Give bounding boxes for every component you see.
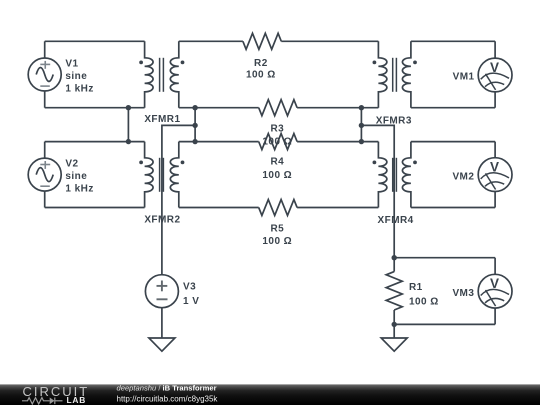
junction V1- / V2+ bottom bbox=[126, 139, 131, 144]
svg-text:V: V bbox=[490, 159, 499, 174]
svg-text:http://circuitlab.com/c8yg35k: http://circuitlab.com/c8yg35k bbox=[117, 395, 219, 404]
voltmeter VM3 bbox=[478, 258, 512, 325]
junction XFMR3 primary bottom / R3 right bbox=[359, 105, 364, 110]
wire left bus V1- to V2+ bbox=[127, 108, 129, 142]
svg-text:sine: sine bbox=[65, 71, 87, 82]
voltage source V1 (sine) bbox=[28, 41, 61, 107]
resistor R4 bbox=[259, 134, 297, 150]
resistor R5 bbox=[259, 200, 297, 216]
wire XFMR2 secondary bottom to XFMR4 primary bottom (R5 leads) bbox=[179, 207, 379, 209]
wire tap to R1 bbox=[361, 125, 394, 257]
label V2 sine 1 kHz bbox=[65, 159, 93, 195]
junction right bus tap to R1 bbox=[359, 123, 364, 128]
wire XFMR4 secondary bottom to VM2 bbox=[411, 207, 495, 209]
label R4 100 ohm bbox=[262, 157, 292, 181]
voltmeter VM1 bbox=[478, 41, 512, 107]
svg-text:V1: V1 bbox=[65, 59, 78, 70]
svg-text:100 Ω: 100 Ω bbox=[262, 170, 292, 181]
junction R1 top / VM3 bbox=[392, 255, 397, 260]
svg-text:R1: R1 bbox=[409, 282, 423, 293]
label V1 sine 1 kHz bbox=[65, 59, 93, 95]
label R5 100 ohm bbox=[262, 223, 292, 247]
voltmeter VM2 bbox=[478, 142, 512, 208]
svg-text:R2: R2 bbox=[254, 58, 268, 69]
wire top of V2 loop bbox=[45, 141, 145, 143]
wire R1 bottom to ground bbox=[393, 324, 395, 338]
wire bottom of V1 loop bbox=[45, 107, 145, 109]
transformer XFMR1 bbox=[139, 41, 184, 107]
wire XFMR2 secondary top to XFMR4 primary top (R4 leads) bbox=[179, 141, 379, 143]
svg-text:LAB: LAB bbox=[67, 395, 87, 405]
svg-text:1 kHz: 1 kHz bbox=[65, 84, 93, 95]
wire tap to V3 bbox=[162, 125, 195, 274]
svg-text:XFMR1: XFMR1 bbox=[144, 114, 180, 125]
junction V1- / V2+ top bbox=[126, 105, 131, 110]
wire XFMR4 secondary top to VM2 bbox=[411, 141, 495, 143]
resistor R1 bbox=[386, 258, 402, 325]
label R2 100 ohm bbox=[246, 58, 276, 81]
svg-text:R4: R4 bbox=[270, 157, 284, 168]
svg-text:V3: V3 bbox=[183, 282, 196, 293]
wire bottom of V2 loop bbox=[45, 207, 145, 209]
transformer XFMR3 bbox=[373, 41, 417, 107]
wire top loop V1 to XFMR1 primary top bbox=[45, 40, 145, 42]
svg-text:sine: sine bbox=[65, 171, 87, 182]
svg-text:VM2: VM2 bbox=[452, 172, 474, 183]
wire R1 bottom to VM3 bbox=[394, 323, 495, 325]
svg-text:R3: R3 bbox=[270, 123, 284, 134]
logo squiggle resistor-diode bbox=[22, 398, 63, 405]
svg-text:100 Ω: 100 Ω bbox=[409, 296, 439, 307]
wire XFMR1 secondary top to XFMR3 primary top (R2 leads) bbox=[179, 40, 379, 42]
svg-text:1 V: 1 V bbox=[183, 296, 199, 307]
label R1 100 ohm bbox=[409, 282, 439, 307]
wire R1 top to VM3 bbox=[394, 257, 495, 259]
junction XFMR4 primary top / R4 right bbox=[359, 139, 364, 144]
svg-text:XFMR3: XFMR3 bbox=[376, 115, 412, 126]
wire XFMR3 secondary bottom to VM1 bbox=[411, 107, 495, 109]
ground for R1 bbox=[381, 338, 407, 351]
transformer XFMR2 bbox=[139, 142, 184, 208]
ground for V3 bbox=[149, 338, 175, 351]
svg-text:1 kHz: 1 kHz bbox=[65, 184, 93, 195]
resistor R2 bbox=[243, 33, 281, 49]
label R3 100 ohm bbox=[262, 123, 292, 147]
junction left bus tap to V3 bbox=[192, 123, 197, 128]
svg-text:deeptanshu / iB Transformer: deeptanshu / iB Transformer bbox=[117, 383, 217, 392]
svg-text:VM1: VM1 bbox=[453, 71, 475, 82]
voltage source V3 (dc) bbox=[145, 275, 178, 338]
resistor R3 bbox=[259, 100, 297, 116]
svg-text:V: V bbox=[490, 60, 499, 75]
junction XFMR2 secondary top / R4 left bbox=[192, 139, 197, 144]
svg-text:100 Ω: 100 Ω bbox=[246, 70, 276, 81]
wire XFMR3 secondary top to VM1 bbox=[411, 40, 495, 42]
junction R1 bottom / VM3 / ground bbox=[392, 322, 397, 327]
svg-text:V2: V2 bbox=[65, 159, 78, 170]
label V3 1 V bbox=[183, 282, 199, 307]
junction XFMR1 secondary bottom / R3 left bbox=[192, 105, 197, 110]
svg-text:100 Ω: 100 Ω bbox=[262, 236, 292, 247]
wire XFMR1 secondary bottom to XFMR3 primary bottom (R3 leads) bbox=[179, 107, 379, 109]
svg-text:VM3: VM3 bbox=[452, 288, 474, 299]
wire mid-left bus bbox=[194, 108, 196, 142]
wire mid-right bus bbox=[360, 108, 362, 142]
svg-text:V: V bbox=[490, 276, 499, 291]
voltage source V2 (sine) bbox=[28, 142, 61, 208]
svg-text:XFMR4: XFMR4 bbox=[378, 215, 414, 226]
transformer XFMR4 bbox=[373, 142, 417, 208]
svg-text:R5: R5 bbox=[270, 223, 284, 234]
